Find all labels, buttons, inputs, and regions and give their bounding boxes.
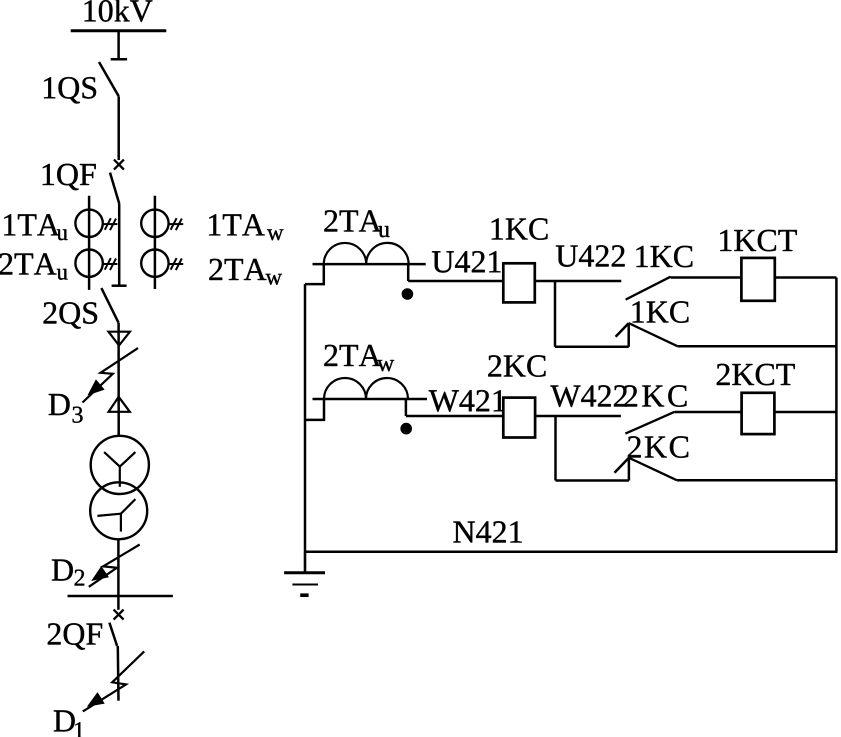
connector up triangle [109, 397, 130, 412]
wire W421 [406, 415, 503, 418]
wire W422 branch drop [554, 416, 557, 481]
contact 1KC blade [626, 277, 671, 300]
CT secondary 2TAw humps [324, 378, 408, 399]
wire N421 [305, 550, 838, 553]
label 2TAu [324, 210, 389, 237]
wire cable section [117, 323, 120, 436]
busbar 10kV [71, 29, 167, 32]
CT 1TAw hash mark [168, 218, 183, 230]
wire contact to 1KCT [671, 276, 742, 279]
wire 2KCT to right bus [774, 411, 836, 414]
wire 2TAu left step [305, 264, 324, 284]
wire feeder upper [117, 96, 120, 160]
contact 1KC holding blade [629, 323, 678, 346]
contact 2KC holding blade [629, 458, 677, 481]
contact 2KC holding riser [628, 458, 631, 481]
CT 2TAw circle [141, 250, 168, 277]
label 10kV [85, 0, 153, 22]
label U421 [432, 251, 501, 273]
transformer winding 2 circle [90, 482, 147, 539]
wire U422 branch drop [554, 281, 557, 347]
CT 2TAw hash mark [168, 258, 183, 270]
disconnector 1QS blade [99, 62, 119, 96]
node bottom tick [112, 284, 127, 287]
wire 1KC to contact [535, 280, 622, 283]
node polarity dot U [402, 288, 414, 300]
wire bus stub [117, 32, 120, 59]
ground symbol [284, 552, 325, 596]
CT 1TAw/2TAw primary line [154, 196, 157, 289]
label 2KC coil [488, 355, 545, 377]
label W422 [550, 385, 626, 407]
fault arrow D3 [83, 348, 139, 402]
label 2TAw [209, 259, 282, 285]
node polarity dot W [400, 423, 412, 435]
transformer winding 2 wye [97, 499, 135, 531]
label 2TAw [324, 345, 394, 371]
wire transformer to bus [117, 539, 120, 610]
label 1QF [43, 164, 96, 190]
label W421 [429, 390, 505, 412]
label 1TAw [209, 214, 283, 240]
CT 2TAu circle [75, 250, 102, 277]
CT 1TAu circle [75, 210, 102, 237]
fault arrow D1 [83, 651, 144, 711]
CT 1TAw circle [141, 210, 168, 237]
wire feeder bottom [117, 646, 120, 701]
breaker 2QF x-mark [114, 610, 124, 620]
wire 2KC holding branch left [556, 479, 629, 482]
CT secondary 2TAu line [313, 263, 426, 266]
label 1TAu [4, 214, 67, 240]
CT secondary 2TAw line [313, 398, 428, 401]
label D1 [54, 710, 84, 737]
wire 2TAw left step [305, 399, 324, 420]
wire U421 [408, 280, 503, 283]
contact 1KC holding barb [616, 323, 629, 337]
label D2 [52, 560, 84, 586]
CT secondary 2TAu humps [324, 243, 409, 264]
wire 2TAw right drop [405, 399, 408, 416]
label 1KCT [720, 230, 797, 252]
label 2KCT [717, 364, 795, 386]
wire left bus vertical N-side [304, 284, 307, 573]
breaker 1QF x-mark [114, 160, 124, 170]
contact 2KC holding barb [615, 458, 629, 473]
node fixed contact tick [111, 58, 127, 61]
wire 2KC to contact [535, 415, 621, 418]
CT 2TAu hash mark [103, 258, 118, 270]
wire 1KC holding branch left [555, 346, 629, 349]
label 2TAu [0, 253, 68, 279]
wire 2KC holding branch right [677, 479, 836, 482]
label 2KC contact lower [628, 436, 688, 458]
disconnector 2QS blade [101, 288, 118, 323]
busbar 0.4kV [68, 595, 173, 598]
label 1KC contact upper [637, 246, 693, 267]
CT 1TAu hash mark [103, 218, 118, 230]
label U422 [556, 245, 625, 266]
transformer winding 1 circle [91, 436, 149, 494]
label D3 [49, 394, 83, 423]
label 2QF [48, 623, 102, 649]
connector down triangle [109, 332, 130, 346]
CT 1TAu/2TAu primary line [88, 196, 91, 290]
fault arrow D2 [89, 545, 140, 587]
relay coil 2KC box [503, 398, 535, 438]
wire right bus vertical [835, 278, 838, 552]
label 2QS [44, 302, 98, 328]
wire 1KC holding branch right [677, 345, 836, 348]
wire contact to 2KCT [675, 411, 742, 414]
breaker 1QF blade [110, 173, 119, 204]
wire feeder through CTs [118, 204, 121, 286]
label 2KC contact upper [624, 385, 686, 407]
relay coil 1KC box [503, 263, 535, 302]
contact 1KC holding riser [627, 323, 630, 347]
relay coil 2KCT box [742, 393, 775, 434]
label 1KC coil [492, 218, 548, 240]
label N421 [453, 521, 521, 542]
relay coil 1KCT box [741, 258, 774, 301]
label 1KC contact lower [633, 301, 689, 323]
wire 1KCT to right bus [775, 276, 837, 279]
label 1QS [44, 77, 96, 103]
contact 2KC blade [625, 412, 674, 434]
wire 2TAu right drop [407, 264, 410, 281]
breaker 2QF blade [109, 623, 117, 646]
transformer winding 1 wye [104, 452, 135, 487]
